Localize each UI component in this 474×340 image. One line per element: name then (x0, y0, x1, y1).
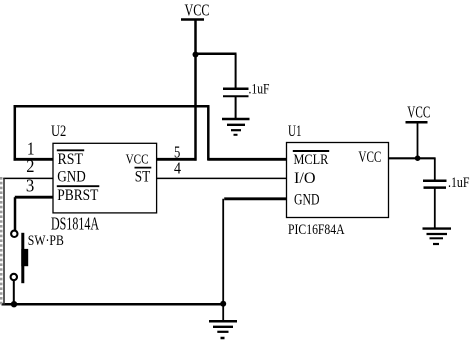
svg-text:VCC: VCC (407, 103, 430, 122)
svg-text:MCLR: MCLR (294, 152, 329, 168)
svg-text:SW·PB: SW·PB (28, 233, 64, 249)
svg-text:PBRST: PBRST (57, 187, 98, 204)
svg-text:GND: GND (294, 191, 320, 208)
svg-text:3: 3 (26, 176, 35, 196)
svg-text:RST: RST (58, 151, 84, 168)
svg-text:.1uF: .1uF (249, 82, 270, 98)
svg-text:U2: U2 (51, 123, 66, 140)
svg-text:VCC: VCC (126, 152, 149, 167)
svg-text:I/O: I/O (294, 170, 316, 187)
svg-text:U1: U1 (288, 123, 302, 140)
svg-text:VCC: VCC (185, 1, 210, 20)
svg-text:DS1814A: DS1814A (51, 214, 99, 234)
svg-text:ST: ST (135, 168, 151, 185)
svg-text:2: 2 (26, 156, 34, 176)
svg-text:4: 4 (174, 159, 181, 178)
svg-text:VCC: VCC (358, 149, 381, 166)
svg-text:GND: GND (57, 168, 86, 185)
svg-text:PIC16F84A: PIC16F84A (288, 222, 345, 238)
svg-text:.1uF: .1uF (448, 175, 470, 191)
